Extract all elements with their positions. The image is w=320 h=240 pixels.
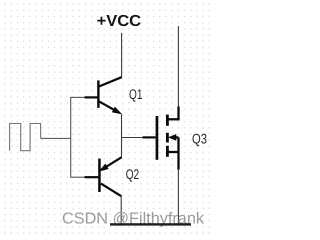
wire to Q1 base	[70, 96, 85, 98]
wire base bus vertical	[70, 97, 72, 177]
wire junction to Q3 gate	[122, 137, 148, 139]
wire VCC rail down to Q1 collector	[121, 33, 123, 78]
body-source pin vertical	[177, 137, 179, 152]
watermark CSDN @Filthyfrank	[62, 210, 205, 227]
svg-text:Q2: Q2	[126, 166, 140, 182]
svg-text:Q3: Q3	[192, 130, 207, 146]
transistor Q1 (NPN)	[85, 77, 122, 113]
drain pin vertical	[177, 107, 179, 121]
gate bar	[156, 116, 159, 160]
wire input to base bus	[41, 137, 71, 139]
wire emitters junction column (Q1 emitter to Q2 emitter)	[121, 114, 123, 157]
transistor Q2 (PNP)	[85, 157, 122, 196]
input source square wave	[10, 124, 41, 151]
source stub	[167, 151, 179, 153]
svg-text:+VCC: +VCC	[97, 13, 142, 30]
wire to Q2 base	[70, 176, 85, 178]
channel segment middle	[166, 133, 169, 143]
gate pin lead	[143, 136, 156, 138]
drain stub	[167, 118, 179, 120]
wire right rail down to Q3 drain	[177, 26, 179, 108]
channel segment bottom	[166, 146, 169, 157]
wire Q2 collector down to bottom rail	[120, 196, 122, 225]
wire Q3 source down to bottom rail	[177, 170, 179, 225]
body stub	[175, 136, 179, 138]
mosfet Q3 (NMOS)	[143, 107, 179, 170]
body arrow	[169, 135, 176, 140]
svg-text:Q1: Q1	[129, 86, 143, 102]
channel segment top	[166, 115, 169, 126]
wire bottom rail Q2 collector to Q3 source	[122, 223, 179, 225]
source pin vertical	[177, 152, 179, 170]
